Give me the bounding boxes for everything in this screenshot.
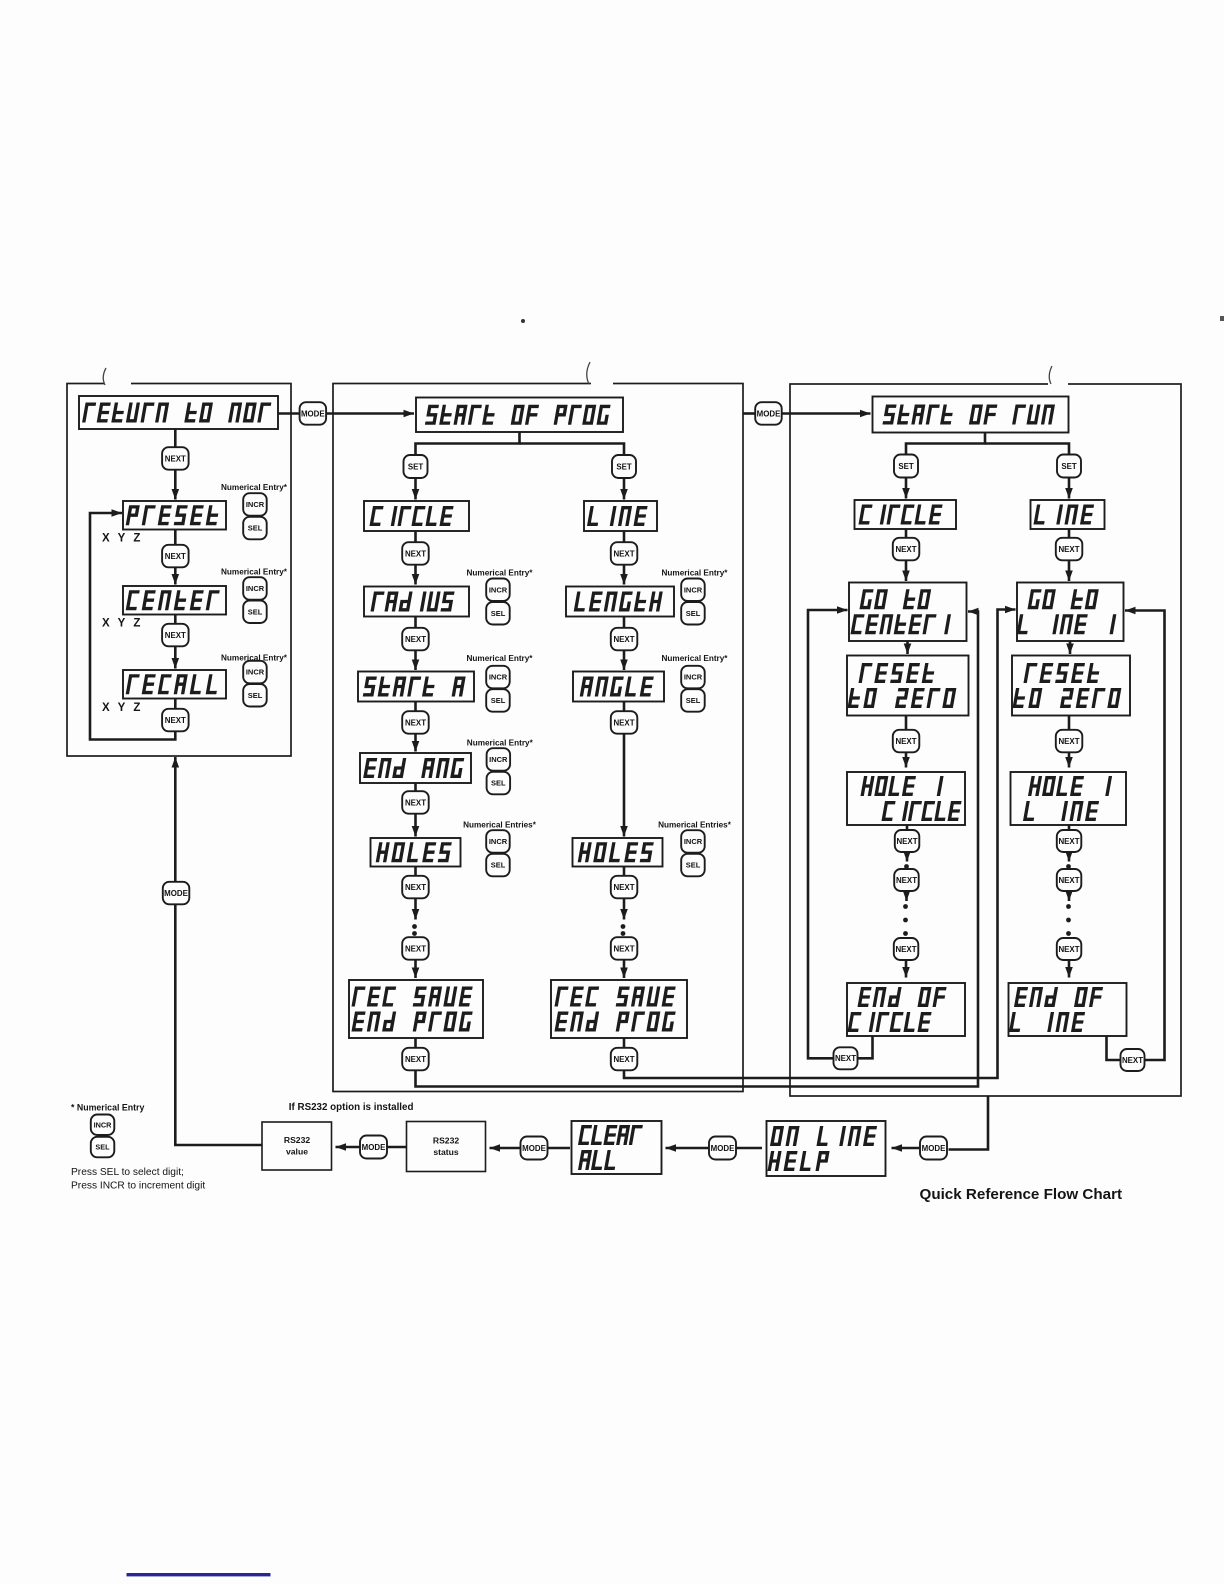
display HOLE 1 CIRCLE [847, 772, 965, 825]
button SEL [243, 517, 267, 540]
button NEXT [895, 830, 920, 852]
button SEL [486, 854, 510, 877]
scan artifact: edge mark [1220, 316, 1224, 321]
button NEXT [162, 624, 189, 647]
ellipsis dots [903, 904, 908, 909]
svg-text:* Numerical Entry: * Numerical Entry [71, 1103, 144, 1113]
svg-text:INCR: INCR [684, 586, 703, 595]
svg-text:NEXT: NEXT [613, 944, 634, 953]
svg-text:NEXT: NEXT [405, 944, 426, 953]
svg-text:SEL: SEL [491, 696, 506, 705]
wire [174, 646, 177, 669]
button MODE [709, 1137, 736, 1160]
wire [808, 610, 848, 1058]
button SEL [243, 601, 267, 624]
wire [985, 444, 1069, 455]
button INCR [486, 579, 510, 602]
wire [174, 699, 177, 710]
wire [174, 615, 177, 625]
svg-text:NEXT: NEXT [165, 716, 186, 725]
wire [624, 610, 1016, 1079]
wire [623, 565, 626, 585]
wire [906, 825, 909, 831]
svg-text:MODE: MODE [301, 409, 325, 418]
ellipsis dot [1066, 864, 1071, 869]
svg-text:NEXT: NEXT [165, 631, 186, 640]
svg-text:X Y Z: X Y Z [102, 533, 143, 545]
svg-text:Quick Reference Flow Chart: Quick Reference Flow Chart [920, 1186, 1123, 1203]
outer box: run mode column [790, 384, 1181, 1096]
svg-text:Numerical Entry*: Numerical Entry* [221, 568, 288, 577]
svg-text:If RS232 option is installed: If RS232 option is installed [289, 1102, 414, 1113]
svg-text:NEXT: NEXT [613, 1055, 634, 1064]
display END OF CIRCLE [847, 983, 965, 1036]
box RS232 status [407, 1122, 486, 1172]
button SET [894, 455, 918, 478]
button MODE [521, 1137, 548, 1160]
svg-text:INCR: INCR [489, 586, 508, 595]
wire [414, 1038, 417, 1048]
display START OF PROG [416, 398, 623, 433]
wire [623, 734, 626, 837]
svg-text:INCR: INCR [684, 673, 703, 682]
wire [414, 565, 417, 585]
svg-text:NEXT: NEXT [895, 945, 916, 954]
svg-text:MODE: MODE [922, 1144, 946, 1153]
wire [1125, 611, 1165, 1061]
wire [623, 1038, 626, 1048]
svg-text:Numerical Entry*: Numerical Entry* [221, 483, 288, 492]
svg-text:INCR: INCR [246, 584, 265, 593]
svg-text:INCR: INCR [684, 837, 703, 846]
button NEXT [1121, 1049, 1145, 1071]
svg-text:Numerical Entries*: Numerical Entries* [658, 821, 732, 830]
svg-text:MODE: MODE [522, 1144, 546, 1153]
outer box: program mode column [333, 384, 743, 1092]
svg-text:Numerical Entry*: Numerical Entry* [467, 739, 534, 748]
ellipsis dots [1066, 904, 1071, 909]
scan artifact: page curl right box top [1048, 366, 1068, 386]
display ANGLE [573, 672, 664, 702]
wire [278, 412, 299, 415]
wire [623, 617, 626, 629]
button NEXT [893, 730, 920, 753]
display LENGTH [566, 587, 674, 617]
svg-text:Numerical Entry*: Numerical Entry* [662, 569, 729, 578]
button NEXT [402, 937, 429, 960]
box RS232 value [262, 1122, 332, 1170]
wire [414, 867, 417, 877]
svg-text:NEXT: NEXT [1058, 545, 1079, 554]
svg-text:NEXT: NEXT [895, 737, 916, 746]
wire [892, 1147, 920, 1150]
wire [743, 412, 755, 415]
button NEXT [1057, 830, 1082, 852]
svg-text:status: status [433, 1147, 459, 1157]
wire [414, 531, 417, 543]
svg-text:SEL: SEL [491, 779, 506, 788]
svg-text:NEXT: NEXT [613, 549, 634, 558]
wire [414, 898, 417, 920]
wire [520, 444, 625, 456]
wire [548, 1147, 570, 1150]
svg-text:NEXT: NEXT [405, 1055, 426, 1064]
wire [623, 898, 626, 920]
wire [1068, 752, 1071, 768]
svg-text:NEXT: NEXT [1058, 876, 1079, 885]
wire [906, 641, 909, 654]
display PRESET [123, 501, 226, 530]
wire [414, 814, 417, 837]
button NEXT [402, 542, 429, 565]
svg-text:NEXT: NEXT [1058, 837, 1079, 846]
button MODE [360, 1136, 387, 1159]
svg-text:Numerical Entries*: Numerical Entries* [463, 821, 537, 830]
display CLEAR ALL [572, 1121, 662, 1174]
wire [1068, 825, 1071, 831]
button INCR [243, 493, 267, 516]
ellipsis dots [412, 924, 417, 929]
wire [90, 513, 175, 740]
svg-text:NEXT: NEXT [896, 876, 917, 885]
wire [905, 960, 908, 978]
wire [782, 412, 871, 415]
wire [623, 531, 626, 543]
button INCR [681, 579, 705, 602]
svg-text:SEL: SEL [248, 691, 263, 700]
svg-text:INCR: INCR [246, 500, 265, 509]
button INCR [681, 830, 705, 853]
button NEXT [611, 937, 638, 960]
display START OF RUN [873, 397, 1069, 433]
wire [174, 567, 177, 585]
wire [490, 1147, 521, 1150]
wire [414, 783, 417, 792]
wire [416, 432, 520, 456]
svg-text:SET: SET [408, 462, 424, 471]
button SEL [486, 602, 510, 625]
wire [949, 1096, 989, 1150]
button SEL [681, 602, 705, 625]
wire [905, 560, 908, 581]
outer box: normal mode column [67, 384, 291, 757]
button NEXT [611, 1048, 638, 1071]
wire [414, 617, 417, 629]
display LINE [584, 501, 657, 531]
wire [623, 960, 626, 979]
svg-text:SEL: SEL [686, 609, 701, 618]
wire [1107, 1036, 1121, 1060]
wire [906, 433, 985, 455]
display RESET TO ZERO [1012, 656, 1130, 716]
svg-text:NEXT: NEXT [613, 718, 634, 727]
svg-text:NEXT: NEXT [405, 718, 426, 727]
svg-text:NEXT: NEXT [405, 549, 426, 558]
svg-text:SET: SET [898, 462, 914, 471]
svg-text:NEXT: NEXT [405, 635, 426, 644]
button SET [1057, 455, 1081, 478]
scan artifact: ink dot [521, 319, 525, 323]
svg-text:NEXT: NEXT [1058, 945, 1079, 954]
svg-text:SEL: SEL [491, 861, 506, 870]
wire [414, 650, 417, 670]
wire [666, 1147, 709, 1150]
svg-text:MODE: MODE [362, 1143, 386, 1152]
wire [1068, 716, 1071, 731]
button NEXT [894, 938, 919, 960]
button INCR [243, 577, 267, 600]
button SEL [681, 854, 705, 877]
wire [1068, 529, 1071, 538]
display END OF LINE [1009, 983, 1127, 1036]
display RECALL [123, 670, 226, 699]
button NEXT [402, 791, 429, 814]
svg-text:NEXT: NEXT [835, 1054, 856, 1063]
button NEXT [1057, 869, 1082, 891]
wire [414, 734, 417, 752]
wire [858, 1036, 873, 1058]
svg-text:NEXT: NEXT [1058, 737, 1079, 746]
wire [1069, 641, 1072, 654]
display RADIUS [364, 587, 469, 617]
scan artifact: page curl left box top [103, 368, 131, 386]
wire [905, 891, 908, 901]
svg-text:SET: SET [616, 462, 632, 471]
svg-text:MODE: MODE [757, 409, 781, 418]
button NEXT [162, 447, 189, 470]
button INCR [681, 666, 705, 689]
display ON LINE HELP [767, 1121, 886, 1176]
svg-text:SEL: SEL [248, 608, 263, 617]
button NEXT [834, 1047, 858, 1069]
button NEXT [402, 711, 429, 734]
display REC SAVE END PROG [551, 980, 687, 1038]
display CENTER [123, 586, 226, 615]
wire [416, 612, 979, 1087]
display RESET TO ZERO [847, 656, 969, 716]
button NEXT [611, 876, 638, 899]
svg-text:INCR: INCR [489, 837, 508, 846]
wire [174, 470, 177, 500]
ellipsis dots [621, 924, 626, 929]
button NEXT [1056, 538, 1083, 561]
wire [1068, 478, 1071, 499]
button SEL [243, 684, 267, 707]
button NEXT [402, 628, 429, 651]
svg-text:Numerical Entry*: Numerical Entry* [467, 569, 534, 578]
svg-text:NEXT: NEXT [613, 635, 634, 644]
button SEL [91, 1137, 115, 1158]
wire [1068, 560, 1071, 581]
wire [905, 529, 908, 538]
svg-text:SEL: SEL [686, 861, 701, 870]
svg-text:SEL: SEL [248, 524, 263, 533]
display LINE [1031, 500, 1105, 529]
svg-text:value: value [286, 1147, 308, 1157]
button NEXT [611, 628, 638, 651]
button INCR [487, 748, 511, 771]
wire [174, 530, 177, 546]
wire [905, 478, 908, 499]
display HOLES [371, 838, 461, 867]
svg-text:Numerical Entry*: Numerical Entry* [662, 654, 729, 663]
display END ANG [360, 753, 471, 783]
wire [623, 650, 626, 670]
scan artifact: blue rule bottom left [127, 1573, 271, 1576]
svg-text:X Y Z: X Y Z [102, 618, 143, 630]
button SEL [681, 689, 705, 712]
svg-text:MODE: MODE [164, 889, 188, 898]
wire [327, 412, 415, 415]
svg-text:NEXT: NEXT [165, 552, 186, 561]
button NEXT [1057, 938, 1082, 960]
scan artifact: page curl middle box top [587, 362, 613, 386]
svg-text:SEL: SEL [491, 609, 506, 618]
svg-text:Numerical Entry*: Numerical Entry* [467, 654, 534, 663]
svg-text:RS232: RS232 [433, 1136, 459, 1146]
button SEL [486, 689, 510, 712]
svg-text:INCR: INCR [94, 1120, 113, 1129]
wire [1068, 852, 1071, 862]
svg-text:NEXT: NEXT [613, 883, 634, 892]
display HOLE 1 LINE [1011, 772, 1127, 825]
wire [623, 702, 626, 712]
display RETURN TO NOR [79, 396, 278, 429]
ellipsis dot [904, 864, 909, 869]
button SET [612, 455, 636, 478]
button INCR [243, 661, 267, 684]
display GO TO CENTER 1 [849, 583, 967, 642]
wire [905, 716, 908, 731]
wire [623, 867, 626, 877]
wire [737, 1147, 763, 1150]
button NEXT [894, 869, 919, 891]
svg-text:NEXT: NEXT [165, 454, 186, 463]
svg-text:NEXT: NEXT [1122, 1056, 1143, 1065]
wire [174, 429, 177, 448]
button INCR [486, 666, 510, 689]
svg-text:SEL: SEL [686, 696, 701, 705]
button SEL [487, 772, 511, 795]
display CIRCLE [364, 501, 469, 531]
button NEXT [162, 545, 189, 568]
button NEXT [611, 711, 638, 734]
svg-text:INCR: INCR [489, 673, 508, 682]
display GO TO LINE 1 [1016, 583, 1123, 642]
button NEXT [611, 542, 638, 565]
wire [336, 1146, 360, 1149]
wire [623, 478, 626, 500]
display REC SAVE END PROG [349, 980, 483, 1038]
svg-text:X Y Z: X Y Z [102, 702, 143, 714]
display CIRCLE [855, 500, 957, 529]
svg-text:Press SEL to select digit;: Press SEL to select digit; [71, 1167, 184, 1178]
display HOLES [573, 838, 663, 867]
svg-text:Press INCR to increment digit: Press INCR to increment digit [71, 1181, 205, 1192]
button NEXT [402, 1048, 429, 1071]
wire [906, 852, 909, 862]
button NEXT [402, 876, 429, 899]
button NEXT [893, 538, 920, 561]
button NEXT [1056, 730, 1083, 753]
svg-text:RS232: RS232 [284, 1135, 310, 1145]
button NEXT [162, 709, 189, 732]
wire [905, 752, 908, 768]
button MODE [755, 402, 782, 425]
svg-text:NEXT: NEXT [405, 883, 426, 892]
svg-text:INCR: INCR [246, 668, 265, 677]
svg-text:NEXT: NEXT [405, 798, 426, 807]
button MODE [300, 402, 327, 425]
svg-text:NEXT: NEXT [896, 837, 917, 846]
wire [175, 757, 262, 1145]
button INCR [486, 830, 510, 853]
button MODE [920, 1137, 947, 1160]
button MODE [163, 882, 190, 905]
wire [388, 1146, 407, 1149]
svg-text:NEXT: NEXT [895, 545, 916, 554]
display START A [358, 672, 474, 702]
wire [414, 960, 417, 979]
wire [1068, 891, 1071, 901]
svg-text:SEL: SEL [95, 1143, 110, 1152]
wire [414, 478, 417, 500]
wire [414, 702, 417, 712]
svg-text:INCR: INCR [489, 755, 508, 764]
button SET [404, 455, 428, 478]
svg-text:MODE: MODE [711, 1144, 735, 1153]
svg-text:SET: SET [1061, 462, 1077, 471]
wire [1068, 960, 1071, 978]
button INCR [91, 1115, 115, 1136]
